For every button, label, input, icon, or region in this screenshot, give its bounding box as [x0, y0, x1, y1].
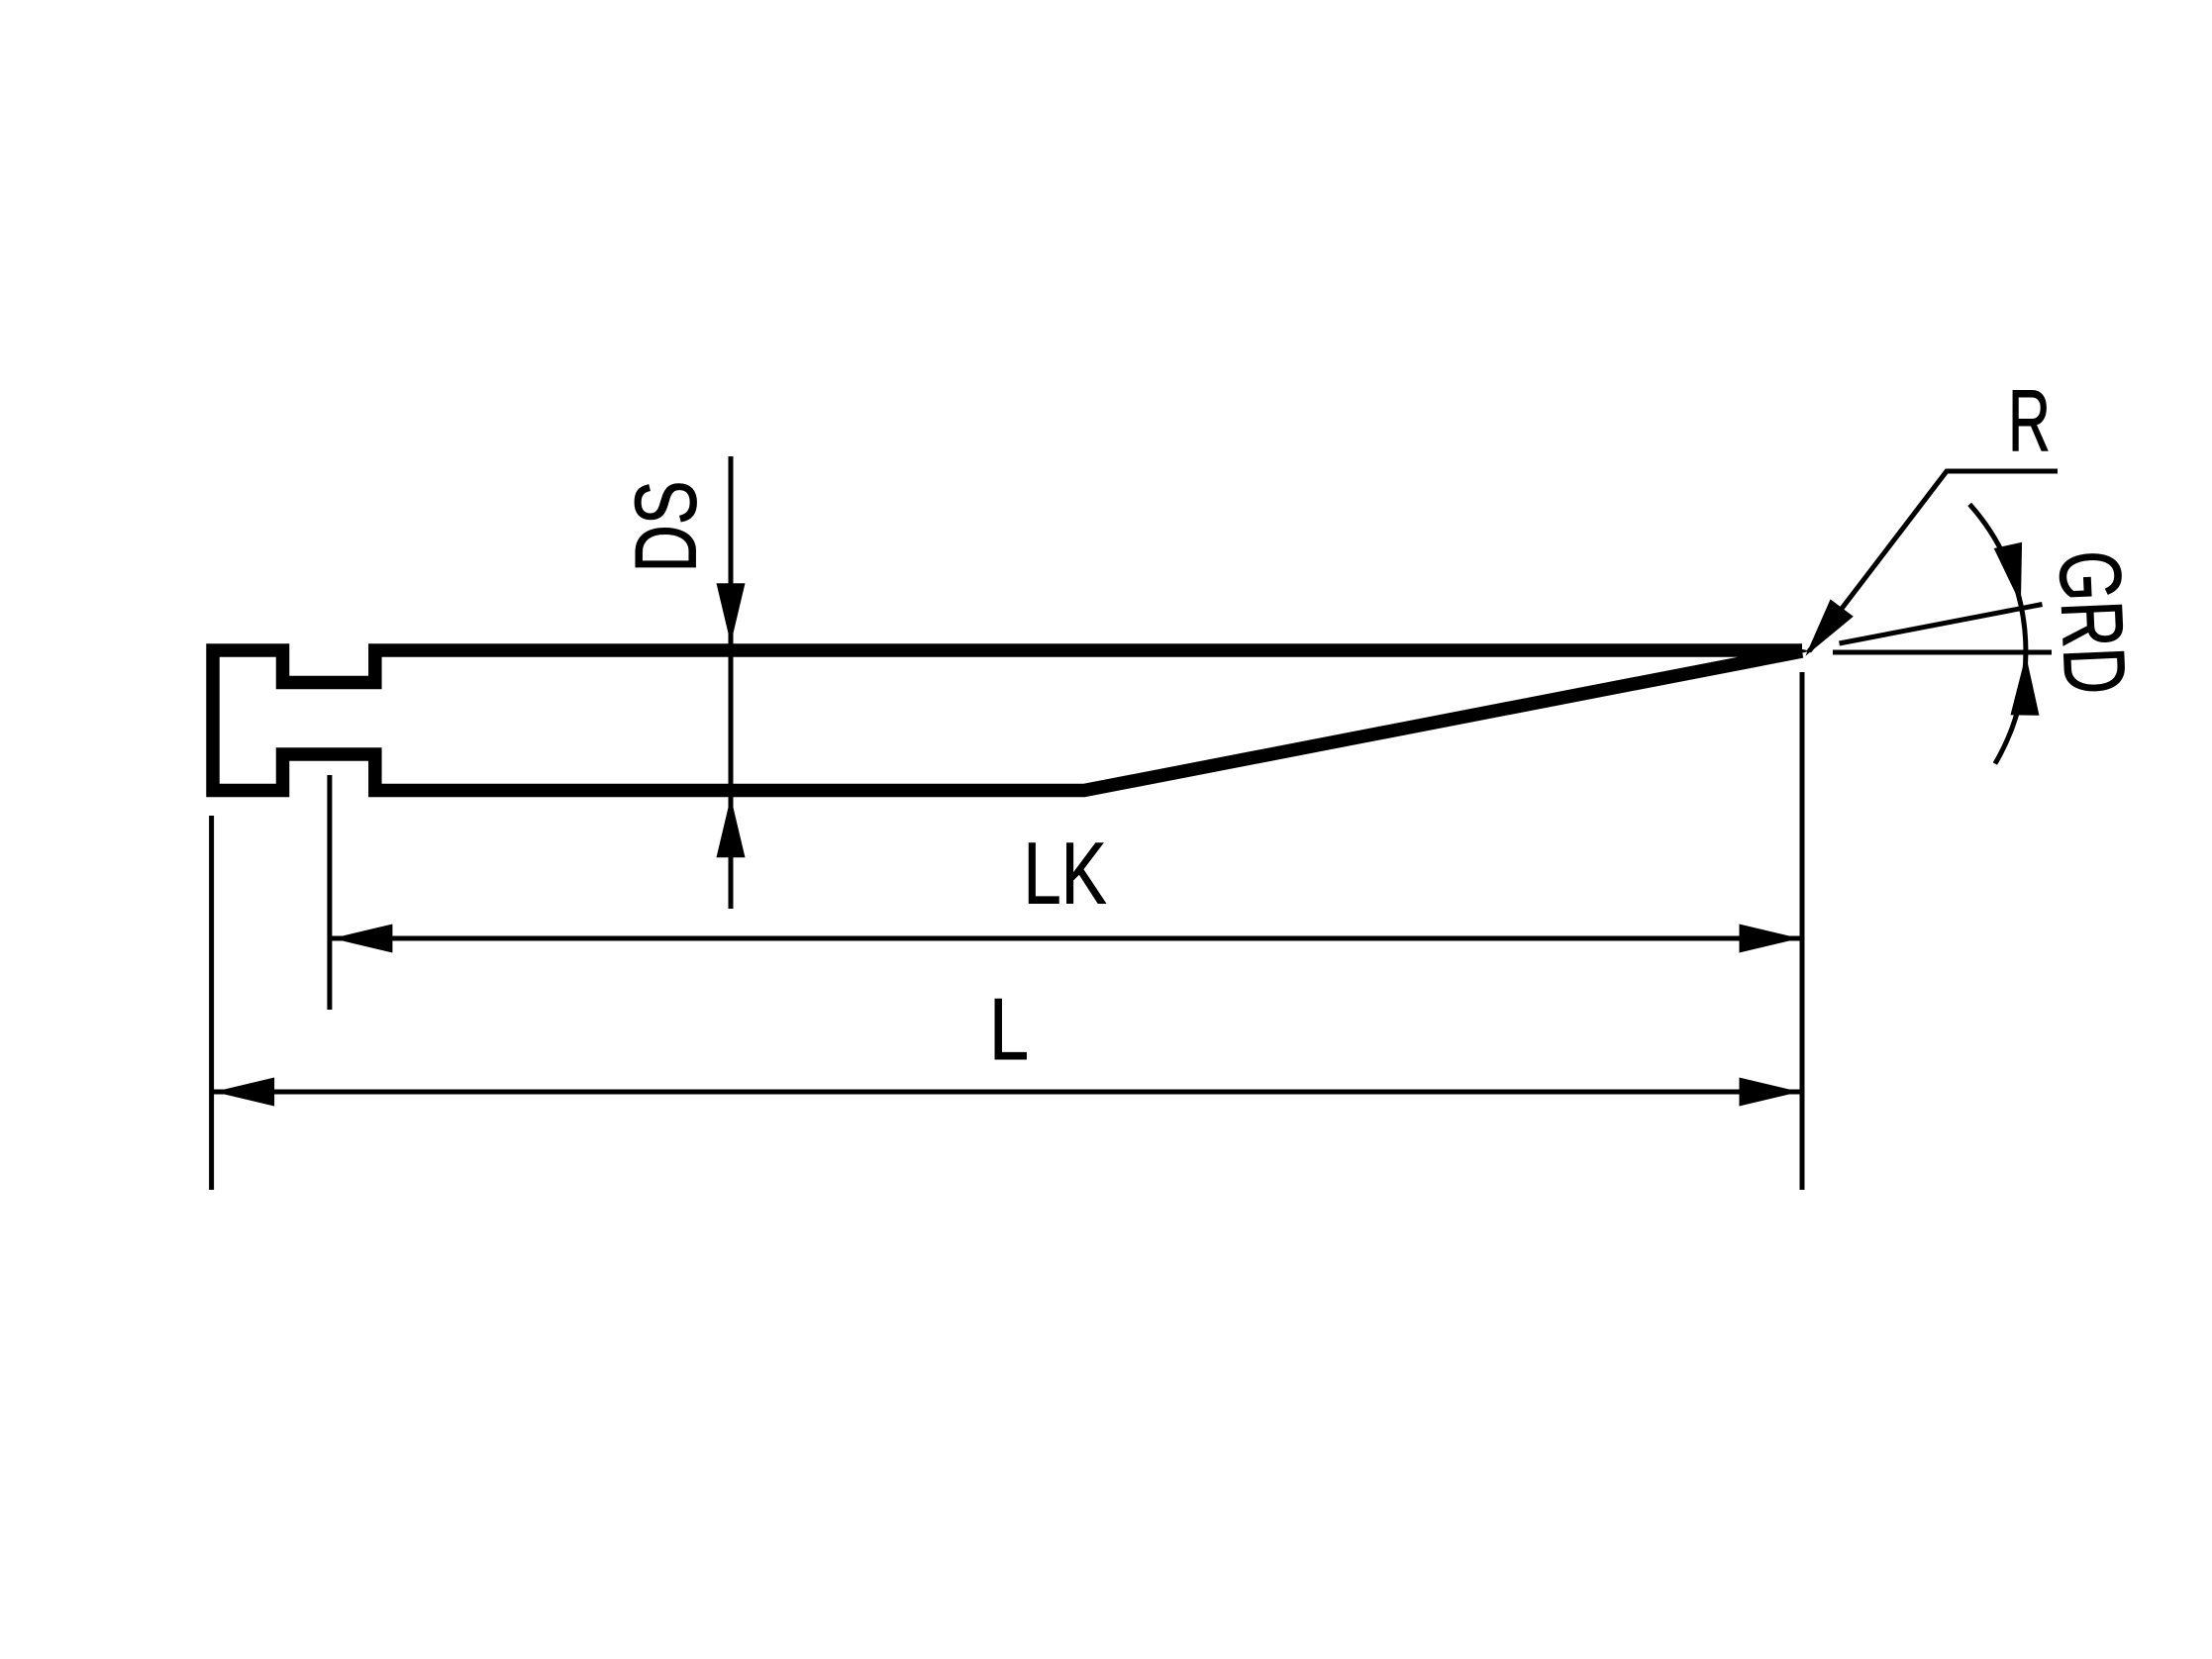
wire LK extension line: [327, 775, 332, 1010]
node R leader arrowhead: [1805, 599, 1853, 655]
wire GRD upper angle line: [1840, 605, 2043, 644]
node blade tip wedge: [1777, 643, 1811, 658]
wire L right extension line: [1800, 672, 1805, 1190]
blade outline: [213, 650, 1802, 791]
node GRD arc lower arrowhead: [2011, 655, 2040, 716]
svg-text:DS: DS: [617, 481, 715, 573]
wire R leader: [1809, 471, 2058, 651]
wire LK dimension line: [332, 936, 1800, 941]
wire GRD lower angle line: [1833, 650, 2052, 655]
node L left arrowhead: [214, 1078, 274, 1107]
svg-text:LK: LK: [1024, 825, 1107, 923]
wire L left extension line: [209, 816, 214, 1190]
wire L dimension line: [214, 1090, 1800, 1095]
svg-text:R: R: [2008, 371, 2051, 469]
node LK left arrowhead: [332, 925, 392, 953]
node L right arrowhead: [1740, 1078, 1800, 1107]
node DS upper arrowhead: [717, 583, 746, 643]
wire GRD angle arc: [1969, 504, 2026, 763]
node DS lower arrowhead: [717, 797, 746, 857]
svg-text:L: L: [989, 980, 1029, 1078]
svg-text:GRD: GRD: [2041, 548, 2145, 696]
node LK right arrowhead: [1740, 925, 1800, 953]
wire DS dimension line: [729, 456, 734, 909]
node GRD arc upper arrowhead: [1994, 542, 2022, 605]
